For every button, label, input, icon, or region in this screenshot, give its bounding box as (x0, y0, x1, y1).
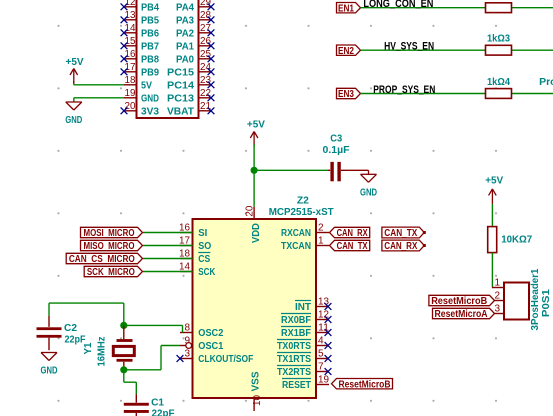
svg-text:PB4: PB4 (141, 1, 159, 13)
svg-text:Y1: Y1 (82, 342, 94, 354)
svg-text:MISO_MICRO: MISO_MICRO (84, 241, 135, 252)
svg-text:19: 19 (318, 375, 329, 386)
svg-text:SI: SI (198, 227, 207, 239)
svg-text:C3: C3 (330, 133, 342, 145)
svg-text:1kΩ4: 1kΩ4 (487, 76, 510, 88)
svg-text:Z2: Z2 (297, 195, 309, 207)
svg-text:RESET: RESET (282, 379, 311, 391)
svg-text:GND: GND (65, 114, 82, 126)
svg-text:Pro: Pro (539, 76, 553, 88)
svg-text:CS: CS (198, 253, 210, 265)
svg-text:10: 10 (252, 395, 263, 406)
svg-text:C2: C2 (64, 322, 77, 334)
svg-text:VDD: VDD (250, 223, 262, 243)
svg-text:20: 20 (125, 101, 136, 112)
svg-text:PROP_SYS_EN: PROP_SYS_EN (373, 84, 435, 96)
svg-text:2: 2 (318, 223, 324, 234)
svg-text:PA4: PA4 (176, 1, 194, 13)
svg-text:3: 3 (494, 304, 500, 315)
svg-text:CAN_TX: CAN_TX (337, 241, 368, 252)
svg-text:INT: INT (295, 301, 312, 313)
svg-text:LONG_CON_EN: LONG_CON_EN (363, 0, 433, 10)
svg-text:PB6: PB6 (141, 27, 159, 39)
svg-text:13: 13 (125, 10, 136, 21)
svg-text:22pF: 22pF (152, 408, 176, 416)
svg-text:EN1: EN1 (338, 3, 354, 14)
svg-text:+5V: +5V (66, 56, 84, 68)
svg-text:PA2: PA2 (176, 27, 194, 39)
svg-text:ResetMicroA: ResetMicroA (435, 309, 489, 320)
svg-text:1: 1 (494, 278, 500, 289)
svg-text:CAN_TX: CAN_TX (384, 228, 417, 239)
svg-text:EN3: EN3 (338, 89, 354, 100)
svg-text:18: 18 (125, 75, 136, 86)
svg-text:17: 17 (125, 62, 136, 73)
svg-text:PC15: PC15 (167, 66, 194, 78)
svg-text:3: 3 (184, 349, 190, 360)
svg-text:+5V: +5V (247, 119, 265, 131)
svg-text:TX0RTS: TX0RTS (277, 340, 311, 352)
svg-text:14: 14 (125, 23, 136, 34)
svg-text:SO: SO (198, 240, 211, 252)
svg-text:8: 8 (184, 323, 190, 334)
svg-text:GND: GND (41, 365, 58, 377)
svg-text:PB8: PB8 (141, 53, 159, 65)
svg-text:PB5: PB5 (141, 14, 159, 26)
svg-text:PB7: PB7 (141, 40, 159, 52)
svg-text:P0S1: P0S1 (540, 289, 552, 317)
svg-text:ResetMicroB: ResetMicroB (339, 379, 391, 390)
svg-text:GND: GND (360, 186, 377, 198)
svg-text:29: 29 (200, 0, 211, 8)
svg-text:PC13: PC13 (167, 92, 194, 104)
svg-text:PA1: PA1 (176, 40, 194, 52)
svg-text:SCK: SCK (198, 266, 215, 278)
svg-text:TX1RTS: TX1RTS (277, 353, 311, 365)
svg-text:MCP2515-xST: MCP2515-xST (269, 206, 335, 218)
svg-text:TXCAN: TXCAN (281, 240, 311, 252)
svg-text:2: 2 (494, 291, 500, 302)
svg-text:CLKOUT/SOF: CLKOUT/SOF (198, 353, 253, 365)
svg-text:7: 7 (318, 362, 324, 373)
svg-text:3V3: 3V3 (141, 105, 159, 117)
svg-text:RX1BF: RX1BF (281, 327, 311, 339)
svg-text:MOSI_MICRO: MOSI_MICRO (84, 228, 135, 239)
svg-text:CAN_RX: CAN_RX (384, 241, 417, 252)
svg-text:PB9: PB9 (141, 66, 159, 78)
svg-text:CAN_RX: CAN_RX (337, 228, 368, 239)
svg-text:19: 19 (125, 88, 136, 99)
svg-text:VSS: VSS (250, 372, 262, 392)
svg-text:PA3: PA3 (176, 14, 194, 26)
svg-text:0.1µF: 0.1µF (323, 144, 351, 156)
svg-text:RX0BF: RX0BF (281, 314, 311, 326)
svg-text:15: 15 (125, 36, 136, 47)
svg-text:+5V: +5V (485, 174, 503, 186)
svg-text:EN2: EN2 (338, 46, 354, 57)
svg-text:ResetMicroB: ResetMicroB (431, 296, 487, 307)
svg-text:5: 5 (318, 349, 324, 360)
svg-text:HV_SYS_EN: HV_SYS_EN (384, 41, 434, 53)
svg-text:RXCAN: RXCAN (281, 227, 311, 239)
svg-text:4: 4 (318, 336, 324, 347)
svg-text:TX2RTS: TX2RTS (277, 366, 311, 378)
svg-text:OSC2: OSC2 (198, 327, 223, 339)
svg-text:PA0: PA0 (176, 53, 194, 65)
svg-text:1kΩ3: 1kΩ3 (487, 33, 510, 45)
svg-text:CAN_CS_MICRO: CAN_CS_MICRO (69, 254, 135, 265)
svg-text:5V: 5V (141, 79, 152, 91)
svg-text:PC14: PC14 (167, 79, 194, 91)
svg-text:GND: GND (141, 92, 159, 104)
svg-text:SCK_MICRO: SCK_MICRO (87, 267, 135, 278)
svg-text:10KΩ7: 10KΩ7 (501, 234, 532, 246)
svg-text:1: 1 (318, 236, 324, 247)
svg-text:20: 20 (244, 205, 255, 216)
svg-text:16: 16 (125, 49, 136, 60)
svg-text:OSC1: OSC1 (198, 340, 223, 352)
svg-text:VBAT: VBAT (167, 105, 195, 117)
svg-text:16MHz: 16MHz (96, 337, 108, 367)
